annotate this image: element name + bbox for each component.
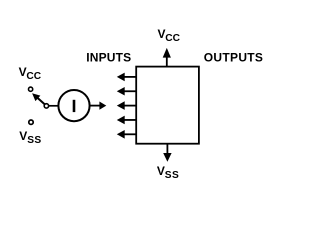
svg-text:SS: SS [27, 135, 41, 146]
svg-text:SS: SS [165, 170, 179, 181]
svg-text:CC: CC [165, 33, 180, 44]
svg-text:OUTPUTS: OUTPUTS [204, 51, 263, 65]
svg-text:CC: CC [26, 71, 41, 82]
svg-text:INPUTS: INPUTS [86, 51, 131, 65]
svg-text:V: V [157, 164, 165, 178]
svg-text:V: V [19, 129, 27, 143]
